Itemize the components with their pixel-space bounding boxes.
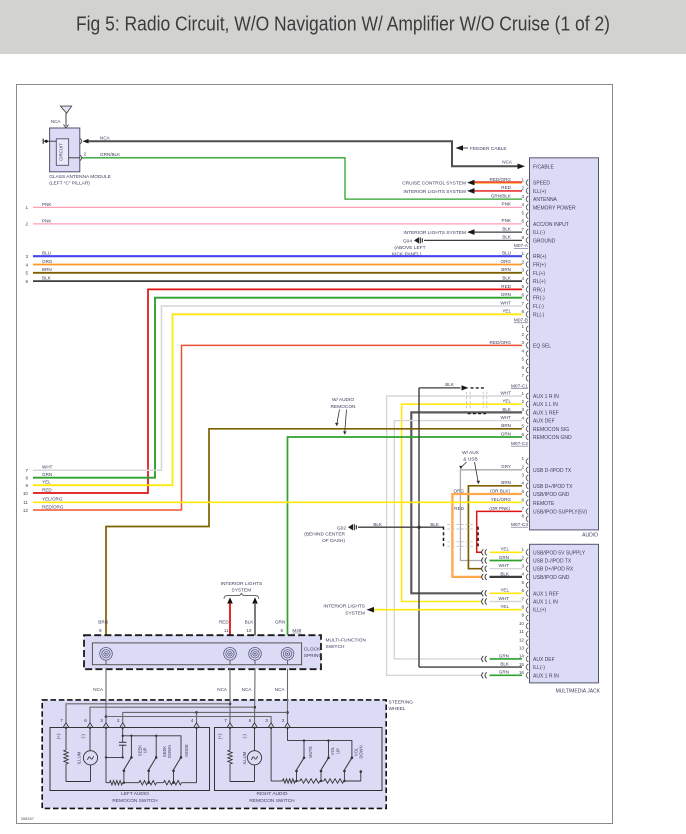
svg-text:RIGHT AUDIO: RIGHT AUDIO xyxy=(256,791,287,797)
svg-text:BLU: BLU xyxy=(42,251,51,256)
svg-text:WHEEL: WHEEL xyxy=(389,706,406,712)
svg-text:2: 2 xyxy=(84,151,87,156)
svg-text:2: 2 xyxy=(282,718,285,723)
svg-text:ILL(+): ILL(+) xyxy=(533,189,547,195)
svg-text:WHT: WHT xyxy=(499,563,510,568)
svg-text:RED/ORG: RED/ORG xyxy=(490,340,512,345)
svg-text:ILL(-): ILL(-) xyxy=(533,230,545,236)
svg-text:6: 6 xyxy=(521,432,524,437)
svg-text:AUX 1 REF: AUX 1 REF xyxy=(533,410,559,416)
svg-text:(-): (-) xyxy=(242,734,247,739)
svg-text:PNK: PNK xyxy=(502,202,512,207)
svg-text:BLK: BLK xyxy=(445,382,455,387)
svg-text:USB/IPOD SUPPLY(5V): USB/IPOD SUPPLY(5V) xyxy=(533,509,587,515)
svg-text:(BEHIND CENTER: (BEHIND CENTER xyxy=(304,531,345,537)
svg-text:(+): (+) xyxy=(218,733,223,739)
svg-text:Fig 5: Radio Circuit, W/O Navi: Fig 5: Radio Circuit, W/O Navigation W/ … xyxy=(76,14,610,36)
svg-text:INTERIOR LIGHTS: INTERIOR LIGHTS xyxy=(323,604,365,610)
svg-text:SPRING: SPRING xyxy=(304,653,323,659)
svg-text:BLU: BLU xyxy=(502,251,511,256)
svg-text:BLK: BLK xyxy=(502,227,512,232)
svg-text:CRUISE CONTROL SYSTEM: CRUISE CONTROL SYSTEM xyxy=(402,181,466,187)
svg-text:5: 5 xyxy=(521,284,524,289)
svg-text:YEL: YEL xyxy=(502,399,511,404)
svg-text:SPEED: SPEED xyxy=(533,181,550,187)
svg-text:9: 9 xyxy=(25,483,28,488)
svg-text:2: 2 xyxy=(25,222,28,227)
svg-text:DOWN: DOWN xyxy=(359,745,364,758)
svg-text:5: 5 xyxy=(521,424,524,429)
svg-text:USB/IPOD 5V SUPPLY: USB/IPOD 5V SUPPLY xyxy=(533,550,586,556)
svg-text:BLK: BLK xyxy=(502,276,512,281)
svg-text:UP: UP xyxy=(335,748,340,754)
svg-text:FEEDER CABLE: FEEDER CABLE xyxy=(470,146,507,152)
svg-text:RED/ORG: RED/ORG xyxy=(490,177,512,182)
svg-text:GRN: GRN xyxy=(499,670,509,675)
svg-text:WHT: WHT xyxy=(42,465,53,470)
svg-text:SYSTEM: SYSTEM xyxy=(232,587,252,593)
svg-text:ORG: ORG xyxy=(501,259,512,264)
svg-text:NCA: NCA xyxy=(93,687,104,692)
svg-text:M07-B: M07-B xyxy=(514,318,528,324)
svg-text:ORG: ORG xyxy=(42,259,53,264)
svg-text:BLK: BLK xyxy=(373,522,383,527)
svg-text:MULTI-FUNCTION: MULTI-FUNCTION xyxy=(326,638,367,644)
svg-text:M07-C1: M07-C1 xyxy=(511,383,528,389)
svg-text:2: 2 xyxy=(117,718,120,723)
svg-text:8: 8 xyxy=(280,628,283,633)
svg-text:BLK: BLK xyxy=(42,276,52,281)
svg-text:5: 5 xyxy=(521,357,524,362)
svg-text:NCA: NCA xyxy=(217,687,228,692)
svg-text:7: 7 xyxy=(224,718,227,723)
svg-text:RED: RED xyxy=(454,506,464,511)
svg-text:BRN: BRN xyxy=(501,267,511,272)
svg-text:13: 13 xyxy=(519,646,525,651)
svg-text:REMOCON SWITCH: REMOCON SWITCH xyxy=(112,798,158,804)
svg-text:2: 2 xyxy=(521,186,524,191)
svg-text:3: 3 xyxy=(25,254,28,259)
svg-text:1: 1 xyxy=(521,547,524,552)
svg-text:YEL: YEL xyxy=(42,480,51,485)
svg-text:NCA: NCA xyxy=(100,136,111,141)
svg-text:BLK: BLK xyxy=(245,619,255,624)
svg-text:GRN: GRN xyxy=(501,292,511,297)
svg-text:2: 2 xyxy=(521,259,524,264)
svg-text:ACC/ON INPUT: ACC/ON INPUT xyxy=(533,222,569,228)
svg-text:6: 6 xyxy=(521,365,524,370)
svg-text:GLASS ANTENNA MODULE: GLASS ANTENNA MODULE xyxy=(49,174,111,180)
svg-text:GRN: GRN xyxy=(499,555,509,560)
svg-text:PNK: PNK xyxy=(42,202,52,207)
svg-text:YEL: YEL xyxy=(500,588,509,593)
svg-text:USB D+/IPOD TX: USB D+/IPOD TX xyxy=(533,484,573,490)
svg-text:ORG: ORG xyxy=(454,488,465,493)
svg-text:ILLUM: ILLUM xyxy=(77,751,82,764)
svg-text:RR(+): RR(+) xyxy=(533,254,547,260)
svg-text:GROUND: GROUND xyxy=(533,238,556,244)
svg-text:USB/IPOD GND: USB/IPOD GND xyxy=(533,575,570,581)
svg-text:3: 3 xyxy=(521,340,524,345)
svg-text:SWITCH: SWITCH xyxy=(326,644,345,650)
svg-text:(-): (-) xyxy=(81,734,86,739)
svg-text:WHT: WHT xyxy=(499,596,510,601)
svg-text:ILLUM: ILLUM xyxy=(242,751,247,764)
svg-text:ILL(+): ILL(+) xyxy=(533,608,547,614)
svg-text:5: 5 xyxy=(521,210,524,215)
svg-text:1: 1 xyxy=(521,456,524,461)
svg-text:9: 9 xyxy=(521,613,524,618)
svg-text:WHT: WHT xyxy=(501,390,512,395)
svg-text:PNK: PNK xyxy=(502,218,512,223)
svg-text:YEL: YEL xyxy=(500,547,509,552)
svg-text:INTERIOR LIGHTS SYSTEM: INTERIOR LIGHTS SYSTEM xyxy=(403,230,466,236)
svg-text:RED: RED xyxy=(501,284,511,289)
svg-text:UP: UP xyxy=(143,747,148,753)
svg-text:W/ AUX: W/ AUX xyxy=(462,450,480,456)
svg-text:8: 8 xyxy=(521,235,524,240)
svg-text:NCA: NCA xyxy=(51,119,62,124)
svg-text:5: 5 xyxy=(25,271,28,276)
svg-text:7: 7 xyxy=(521,301,524,306)
svg-text:NCA: NCA xyxy=(275,687,286,692)
svg-text:BRN: BRN xyxy=(501,423,511,428)
svg-text:4: 4 xyxy=(521,415,524,420)
svg-text:3: 3 xyxy=(521,194,524,199)
svg-text:BLK: BLK xyxy=(502,235,512,240)
svg-text:G04: G04 xyxy=(403,238,412,244)
svg-text:RED: RED xyxy=(219,619,229,624)
svg-text:INTERIOR LIGHTS SYSTEM: INTERIOR LIGHTS SYSTEM xyxy=(403,189,466,195)
svg-text:BLK: BLK xyxy=(430,522,440,527)
svg-text:INTERIOR LIGHTS: INTERIOR LIGHTS xyxy=(221,581,263,587)
svg-text:NCA: NCA xyxy=(242,687,253,692)
svg-text:CIRCUIT: CIRCUIT xyxy=(58,143,63,161)
svg-text:REMOCON GND: REMOCON GND xyxy=(533,435,572,441)
svg-text:6: 6 xyxy=(25,279,28,284)
svg-text:BRN: BRN xyxy=(98,619,108,624)
svg-text:ILL(-): ILL(-) xyxy=(533,665,545,671)
svg-text:10: 10 xyxy=(246,628,252,633)
svg-text:7: 7 xyxy=(25,468,28,473)
svg-text:MEMORY POWER: MEMORY POWER xyxy=(533,205,576,211)
svg-text:PNK: PNK xyxy=(42,218,52,223)
svg-text:YEL/ORG: YEL/ORG xyxy=(491,497,512,502)
svg-text:11: 11 xyxy=(23,500,28,505)
svg-text:4: 4 xyxy=(521,348,524,353)
svg-text:GRN/BLK: GRN/BLK xyxy=(100,152,121,157)
svg-text:AUX DEF: AUX DEF xyxy=(533,419,555,425)
svg-text:7: 7 xyxy=(60,718,63,723)
svg-text:BLK: BLK xyxy=(502,407,512,412)
svg-text:LEFT AUDIO: LEFT AUDIO xyxy=(121,791,149,797)
svg-text:SYSTEM: SYSTEM xyxy=(345,610,365,616)
svg-text:10: 10 xyxy=(23,491,29,496)
svg-text:2: 2 xyxy=(521,399,524,404)
svg-text:AUX 1 REF: AUX 1 REF xyxy=(533,591,559,597)
svg-text:GRN: GRN xyxy=(501,431,511,436)
svg-text:BLK: BLK xyxy=(500,662,510,667)
svg-text:YEL/ORG: YEL/ORG xyxy=(42,497,63,502)
svg-text:F/CABLE: F/CABLE xyxy=(533,164,555,170)
svg-text:RL(-): RL(-) xyxy=(533,312,545,318)
svg-text:8: 8 xyxy=(521,514,524,519)
svg-text:(OR PNK): (OR PNK) xyxy=(489,506,510,511)
svg-text:BRN: BRN xyxy=(42,267,52,272)
svg-text:7: 7 xyxy=(521,596,524,601)
svg-text:4: 4 xyxy=(191,718,194,723)
svg-text:3: 3 xyxy=(100,718,103,723)
svg-text:GRN: GRN xyxy=(275,619,285,624)
svg-text:& USB: & USB xyxy=(463,457,477,463)
svg-text:9: 9 xyxy=(99,628,102,633)
svg-text:15: 15 xyxy=(519,662,525,667)
svg-text:G02: G02 xyxy=(337,525,346,531)
svg-text:USB/IPOD GND: USB/IPOD GND xyxy=(533,492,570,498)
svg-text:RED: RED xyxy=(42,487,52,492)
svg-text:USB D+/IPOD RX: USB D+/IPOD RX xyxy=(533,567,574,573)
svg-text:MULTIMEDIA JACK: MULTIMEDIA JACK xyxy=(556,688,601,694)
svg-text:3: 3 xyxy=(521,268,524,273)
svg-text:RED: RED xyxy=(501,185,511,190)
svg-text:5: 5 xyxy=(521,580,524,585)
svg-text:FL(+): FL(+) xyxy=(533,271,545,277)
svg-text:4: 4 xyxy=(521,276,524,281)
svg-text:STEERING: STEERING xyxy=(389,699,414,705)
svg-text:2: 2 xyxy=(521,332,524,337)
svg-text:GRY: GRY xyxy=(501,464,511,469)
svg-text:14: 14 xyxy=(519,654,525,659)
svg-text:(+): (+) xyxy=(56,733,61,739)
svg-text:FR(+): FR(+) xyxy=(533,263,546,269)
svg-text:RR(-): RR(-) xyxy=(533,287,546,293)
svg-text:1: 1 xyxy=(521,324,524,329)
svg-text:RED/ORG: RED/ORG xyxy=(42,504,64,509)
svg-text:M07-C2: M07-C2 xyxy=(511,441,528,447)
svg-text:CLOCK: CLOCK xyxy=(304,647,321,653)
svg-text:MUTE: MUTE xyxy=(308,746,313,758)
svg-text:8: 8 xyxy=(25,476,28,481)
svg-text:4: 4 xyxy=(521,202,524,207)
svg-text:FR(-): FR(-) xyxy=(533,296,545,302)
svg-text:AUX 1 R IN: AUX 1 R IN xyxy=(533,394,559,400)
svg-text:AUX 1 L IN: AUX 1 L IN xyxy=(533,402,558,408)
svg-text:6: 6 xyxy=(521,219,524,224)
svg-text:USB D-/IPOD TX: USB D-/IPOD TX xyxy=(533,468,572,474)
svg-text:(OR BLK): (OR BLK) xyxy=(490,488,510,493)
svg-text:3: 3 xyxy=(521,473,524,478)
svg-text:OF DASH): OF DASH) xyxy=(322,538,345,544)
svg-text:4: 4 xyxy=(25,262,28,267)
svg-text:USB D-/IPOD TX: USB D-/IPOD TX xyxy=(533,559,572,565)
svg-text:AUX 1 R IN: AUX 1 R IN xyxy=(533,673,559,679)
svg-text:M07-C3: M07-C3 xyxy=(511,522,528,528)
svg-text:YEL: YEL xyxy=(502,309,511,314)
svg-text:7: 7 xyxy=(521,373,524,378)
svg-text:8: 8 xyxy=(521,309,524,314)
svg-text:AUX 1 L IN: AUX 1 L IN xyxy=(533,600,558,606)
svg-text:8: 8 xyxy=(521,605,524,610)
svg-text:GRN: GRN xyxy=(42,472,52,477)
svg-text:11: 11 xyxy=(519,629,524,634)
svg-text:308397: 308397 xyxy=(21,816,35,821)
svg-text:1: 1 xyxy=(25,205,28,210)
svg-text:11: 11 xyxy=(224,628,229,633)
svg-text:REMOTE: REMOTE xyxy=(533,501,555,507)
svg-text:EQ SEL: EQ SEL xyxy=(533,343,551,349)
svg-text:REMOCON: REMOCON xyxy=(330,404,356,410)
svg-text:6: 6 xyxy=(249,718,252,723)
svg-text:4: 4 xyxy=(521,481,524,486)
svg-text:AUX DEF: AUX DEF xyxy=(533,657,555,663)
svg-text:AUDIO: AUDIO xyxy=(582,533,598,539)
svg-text:BLK: BLK xyxy=(500,571,510,576)
svg-text:RL(+): RL(+) xyxy=(533,279,546,285)
svg-text:2: 2 xyxy=(521,555,524,560)
svg-text:GRN/BLK: GRN/BLK xyxy=(491,194,512,199)
svg-text:REMOCON SIG: REMOCON SIG xyxy=(533,427,569,433)
svg-text:7: 7 xyxy=(521,506,524,511)
svg-text:3: 3 xyxy=(265,718,268,723)
svg-text:M49: M49 xyxy=(292,628,301,633)
svg-text:12: 12 xyxy=(23,508,29,513)
svg-text:GRN: GRN xyxy=(499,653,509,658)
svg-text:W/ AUDIO: W/ AUDIO xyxy=(332,397,354,403)
svg-text:FL(-): FL(-) xyxy=(533,304,544,310)
svg-text:BRN: BRN xyxy=(501,480,511,485)
svg-text:6: 6 xyxy=(84,718,87,723)
svg-text:DOWN: DOWN xyxy=(167,745,172,758)
svg-text:WHT: WHT xyxy=(501,415,512,420)
svg-text:NCA: NCA xyxy=(502,159,513,164)
svg-text:12: 12 xyxy=(519,637,525,642)
svg-text:3: 3 xyxy=(521,564,524,569)
svg-text:10: 10 xyxy=(519,621,525,626)
svg-text:REMOCON SWITCH: REMOCON SWITCH xyxy=(249,798,295,804)
svg-text:1: 1 xyxy=(521,391,524,396)
svg-text:M07-A: M07-A xyxy=(514,243,529,249)
svg-text:2: 2 xyxy=(521,465,524,470)
svg-text:6: 6 xyxy=(521,588,524,593)
svg-text:MODE: MODE xyxy=(184,744,189,757)
svg-text:YEL: YEL xyxy=(500,604,509,609)
svg-text:(ABOVE LEFT: (ABOVE LEFT xyxy=(394,245,425,251)
svg-text:(LEFT “C” PILLAR): (LEFT “C” PILLAR) xyxy=(49,180,90,186)
svg-text:16: 16 xyxy=(519,670,525,675)
svg-text:ANTENNA: ANTENNA xyxy=(533,197,558,203)
svg-text:WHT: WHT xyxy=(501,300,512,305)
svg-text:7: 7 xyxy=(521,227,524,232)
